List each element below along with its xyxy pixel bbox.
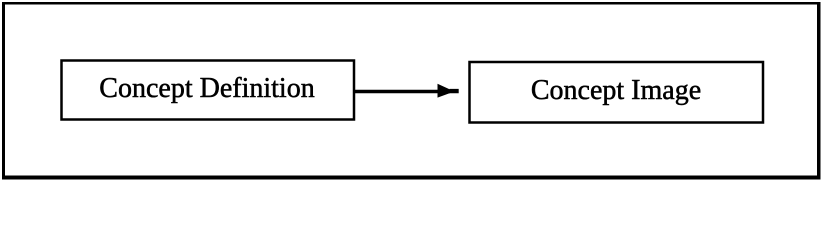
wire: arrow shaft xyxy=(355,90,450,94)
box: Concept Image xyxy=(470,62,764,123)
box: Concept Definition xyxy=(62,61,355,120)
svg-text:Concept Definition: Concept Definition xyxy=(99,73,314,104)
svg-text:Concept Image: Concept Image xyxy=(531,75,701,106)
arrowhead xyxy=(438,84,459,98)
